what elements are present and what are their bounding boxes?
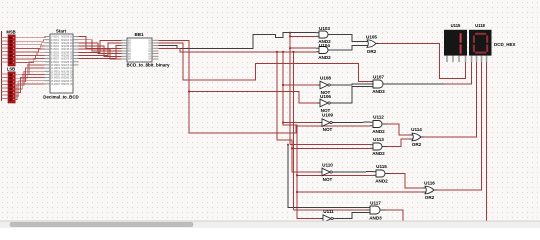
svg-text:2 MSD1: 2 MSD1 — [51, 40, 60, 42]
svg-text:MSD5B 18: MSD5B 18 — [61, 78, 73, 80]
wire U103 out to U105 — [333, 35, 365, 42]
svg-text:15 MSD6: 15 MSD6 — [51, 81, 61, 83]
svg-text:DCD_HEX: DCD_HEX — [494, 42, 516, 47]
wire U105 out to display — [379, 44, 466, 79]
svg-text:U118: U118 — [475, 23, 485, 28]
svg-text:MSD0B 31: MSD0B 31 — [61, 37, 73, 39]
svg-text:5 MSD4: 5 MSD4 — [51, 49, 60, 51]
svg-text:16 MSD7: 16 MSD7 — [51, 84, 61, 86]
and2 gate U115 — [373, 170, 390, 177]
status bar — [0, 221, 540, 228]
wire braid U101 to U102 — [79, 37, 122, 60]
svg-text:MSD6B 25: MSD6B 25 — [61, 56, 73, 58]
svg-text:U113: U113 — [373, 137, 384, 142]
svg-text:9 MSD0: 9 MSD0 — [51, 62, 60, 64]
svg-text:U103: U103 — [319, 26, 330, 31]
wire R2 to U116 in2 — [297, 191, 423, 193]
wire U107 out segment — [388, 83, 444, 85]
svg-text:1 MSD0: 1 MSD0 — [51, 37, 60, 39]
wire junctions — [188, 32, 298, 193]
or2 gate U114 — [410, 133, 425, 141]
and2 gate U103 — [316, 31, 333, 38]
svg-text:OR2: OR2 — [367, 49, 377, 54]
wire U107 out to display — [444, 59, 472, 85]
svg-text:MSD1B 22: MSD1B 22 — [61, 65, 73, 67]
wire U104 out to U105 — [333, 46, 365, 51]
svg-text:4 MSD3: 4 MSD3 — [51, 46, 60, 48]
wire bundle LSB to U101 — [15, 62, 44, 100]
wire U111 out to U117 — [336, 213, 367, 219]
wire net X1 to U107 — [159, 43, 371, 82]
svg-text:U108: U108 — [320, 76, 331, 81]
svg-text:AND2: AND2 — [372, 151, 385, 156]
svg-text:MSD7B 24: MSD7B 24 — [61, 59, 73, 61]
not gate U111 — [320, 215, 336, 223]
svg-text:14 MSD5: 14 MSD5 — [51, 78, 61, 80]
wire net X0 to U112 in2 — [159, 40, 371, 133]
wire bundle MSB to U101 — [15, 37, 45, 63]
wire rail R4 — [293, 52, 295, 210]
wire U113 out to U114 — [387, 139, 410, 147]
svg-text:MSD4B 19: MSD4B 19 — [61, 75, 73, 77]
svg-text:MSD2B 29: MSD2B 29 — [61, 43, 73, 45]
svg-text:10 MSD1: 10 MSD1 — [51, 65, 61, 67]
svg-text:MSD4B 27: MSD4B 27 — [61, 49, 73, 51]
svg-text:MSD7B 16: MSD7B 16 — [61, 84, 73, 86]
wire rail R2 — [283, 52, 320, 219]
svg-text:11 MSD2: 11 MSD2 — [51, 68, 61, 70]
svg-text:U106: U106 — [320, 94, 331, 99]
not gate U108 — [317, 81, 333, 89]
svg-text:BCD_to_8bit_binary: BCD_to_8bit_binary — [126, 63, 170, 68]
power rail bus — [2, 31, 9, 101]
and2 gate U113 — [370, 143, 387, 150]
wire U114 out to display — [424, 59, 477, 138]
BCD-to-binary converter U102 — [122, 38, 159, 62]
svg-text:AND2: AND2 — [375, 178, 388, 183]
svg-text:3 MSD2: 3 MSD2 — [51, 43, 60, 45]
wire U116 out to display — [437, 59, 482, 191]
wire net X3 to U104 — [159, 48, 317, 51]
wire U109 out to U112 — [335, 121, 370, 123]
svg-text:BB1: BB1 — [134, 32, 143, 37]
svg-text:U111: U111 — [323, 209, 334, 214]
svg-text:U114: U114 — [411, 127, 422, 132]
svg-text:13 MSD4: 13 MSD4 — [51, 75, 61, 77]
svg-text:U116: U116 — [424, 180, 435, 185]
wire branch to U106 — [189, 92, 317, 104]
and2 gate U104 — [316, 47, 333, 54]
wire U110 out to U115 — [335, 171, 373, 173]
svg-text:12 MSD3: 12 MSD3 — [51, 71, 61, 73]
svg-text:NOT: NOT — [323, 177, 333, 182]
wire R3 to U113 in1 — [290, 144, 370, 146]
svg-text:U109: U109 — [322, 113, 333, 118]
wire R4 to U117 in2 — [294, 209, 368, 211]
svg-text:MSD2B 21: MSD2B 21 — [61, 68, 73, 70]
DIP switch LSB (S2) — [8, 72, 15, 103]
svg-text:MSD5B 26: MSD5B 26 — [61, 52, 73, 54]
wire U112 out to U114 — [387, 124, 410, 135]
decimal-to-BCD converter U101 — [45, 34, 79, 93]
and3 gate U117 — [367, 206, 386, 214]
svg-text:Start: Start — [56, 29, 67, 34]
wire R2 to U108 — [283, 84, 317, 86]
svg-text:U115: U115 — [376, 164, 387, 169]
or2 gate U105 — [365, 40, 380, 48]
svg-text:U105: U105 — [366, 35, 377, 40]
wire R2 to U109 — [283, 122, 319, 124]
svg-text:8 MSD7: 8 MSD7 — [51, 59, 60, 61]
not gate U110 — [319, 168, 335, 176]
wire U117 out down — [385, 210, 403, 221]
svg-text:MSD1B 30: MSD1B 30 — [61, 40, 73, 42]
and2 gate U112 — [370, 121, 387, 128]
not gate U106 — [317, 99, 333, 107]
wire U106 out to U107 — [333, 87, 370, 104]
svg-text:AND2: AND2 — [318, 55, 331, 60]
svg-text:6 MSD5: 6 MSD5 — [51, 52, 60, 54]
svg-text:AND2: AND2 — [372, 129, 385, 134]
wire net X2 to U103 — [159, 33, 317, 49]
svg-text:U117: U117 — [370, 200, 381, 205]
svg-text:OR2: OR2 — [412, 142, 422, 147]
svg-text:U110: U110 — [322, 162, 333, 167]
svg-text:NOT: NOT — [323, 127, 333, 132]
seven-segment display U118 — [469, 30, 492, 62]
svg-text:U112: U112 — [373, 115, 384, 120]
DIP switch MSB (S1) — [8, 35, 15, 66]
or2 gate U116 — [423, 186, 438, 194]
wire R3 to U103 in2 — [290, 35, 316, 37]
wire R3 to U104 in1 — [290, 47, 316, 49]
svg-text:MSB: MSB — [6, 30, 15, 35]
svg-text:OR2: OR2 — [425, 195, 435, 200]
svg-text:U115: U115 — [451, 23, 461, 28]
svg-text:Decimal_to_BCD: Decimal_to_BCD — [43, 95, 78, 100]
wire rail R1 — [277, 52, 319, 172]
wire display pin to edge — [486, 59, 488, 222]
and3 gate U107 — [370, 80, 389, 88]
svg-text:AND3: AND3 — [369, 216, 382, 221]
svg-text:MSD3B 20: MSD3B 20 — [61, 71, 73, 73]
wire rail R5 dark — [288, 145, 367, 208]
svg-text:MSD3B 28: MSD3B 28 — [61, 46, 73, 48]
svg-text:U104: U104 — [319, 43, 330, 48]
svg-text:MSD0B 23: MSD0B 23 — [61, 62, 73, 64]
wire rail R3 — [289, 33, 291, 145]
svg-text:LSB: LSB — [7, 67, 15, 72]
wire R1 to U113 in2 — [292, 147, 370, 149]
not gate U109 — [319, 119, 335, 127]
svg-text:AND3: AND3 — [372, 89, 385, 94]
wire U115 out to U116 — [390, 174, 423, 189]
wire U108 out to U107 — [333, 84, 370, 85]
seven-segment display U119 — [444, 30, 467, 62]
svg-text:7 MSD6: 7 MSD6 — [51, 56, 60, 58]
svg-text:U107: U107 — [373, 75, 384, 80]
svg-text:MSD6B 17: MSD6B 17 — [61, 81, 73, 83]
wire R2 to U115 in2 — [297, 174, 373, 176]
